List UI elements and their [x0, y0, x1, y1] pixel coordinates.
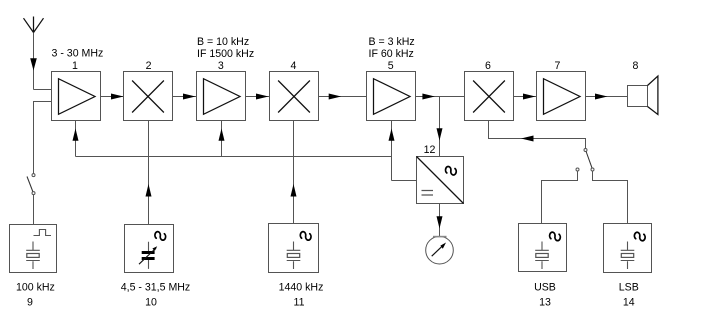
- wire mixer2 to amp3: [173, 96, 197, 98]
- arrow AGC into amp5: [389, 129, 395, 141]
- wire switch to oscillator 9: [33, 195, 35, 225]
- wire LSB contact to oscillator 14: [593, 171, 628, 224]
- wire oscillator11 to mixer4: [293, 121, 295, 224]
- wire mixer6 to amp7: [514, 96, 537, 98]
- wire USB contact to oscillator 13: [542, 171, 578, 224]
- block amplifier 5: [367, 72, 416, 121]
- block VFO 10: [125, 225, 174, 273]
- antenna: [24, 17, 44, 90]
- wire amp1 to mixer2: [101, 96, 124, 98]
- wire detector 12 to meter: [439, 204, 441, 237]
- wire amp1 lower input to calibrator switch: [34, 102, 52, 174]
- arrow into mixer4: [256, 94, 269, 100]
- svg-text:100 kHz: 100 kHz: [16, 282, 55, 294]
- svg-text:12: 12: [424, 144, 436, 156]
- arrow on wire to speaker: [595, 94, 608, 100]
- wire detector 12 output to AGC: [392, 180, 417, 182]
- svg-text:14: 14: [623, 297, 635, 309]
- block amplifier 1: [52, 72, 101, 121]
- svg-text:1440 kHz: 1440 kHz: [279, 282, 324, 294]
- wire amp3 to mixer4: [246, 96, 270, 98]
- arrow BFO into mixer6: [521, 136, 534, 142]
- svg-text:1: 1: [72, 60, 78, 72]
- block mixer 6: [465, 72, 514, 121]
- arrow on wire to mixer6: [422, 94, 435, 100]
- svg-text:3 - 30 MHz: 3 - 30 MHz: [52, 48, 104, 60]
- arrow into mixer2: [111, 94, 124, 100]
- AGC tap to amp3: [221, 121, 223, 157]
- speaker 8: [628, 76, 658, 115]
- switch S1 calibrator: [27, 174, 35, 195]
- block mixer 2: [124, 72, 173, 121]
- wire amp5 to mixer6: [416, 96, 465, 98]
- svg-text:6: 6: [485, 60, 491, 72]
- svg-text:IF 1500 kHz: IF 1500 kHz: [197, 48, 254, 60]
- AGC vertical from detector to amp5: [391, 121, 393, 181]
- wire junction down to detector 12: [439, 97, 441, 157]
- wire amp7 to speaker: [586, 96, 628, 98]
- block calibrator 9: [10, 225, 57, 273]
- arrow into amp3: [183, 94, 196, 100]
- svg-text:B = 3 kHz: B = 3 kHz: [369, 36, 415, 48]
- block crystal oscillator 14 LSB: [604, 224, 652, 273]
- AGC tap to amp1: [75, 121, 77, 157]
- arrow into amp7: [523, 94, 536, 100]
- block crystal oscillator 13 USB: [519, 224, 567, 272]
- svg-text:3: 3: [218, 60, 224, 72]
- svg-text:4: 4: [291, 60, 297, 72]
- svg-text:8: 8: [633, 60, 639, 72]
- svg-text:11: 11: [294, 297, 305, 309]
- block amplifier 3: [197, 72, 246, 121]
- switch S2 USB/LSB: [576, 149, 594, 172]
- block crystal oscillator 11: [269, 224, 319, 273]
- arrow on wire to amp5: [329, 94, 342, 100]
- arrow oscillator10 into mixer2: [146, 184, 152, 197]
- svg-text:IF 60 kHz: IF 60 kHz: [369, 48, 414, 60]
- svg-text:B = 10 kHz: B = 10 kHz: [197, 36, 249, 48]
- svg-text:4,5 - 31,5 MHz: 4,5 - 31,5 MHz: [121, 282, 190, 294]
- meter M1: [426, 236, 454, 264]
- AGC line horizontal: [76, 156, 392, 158]
- svg-text:2: 2: [146, 60, 152, 72]
- svg-text:7: 7: [555, 60, 561, 72]
- svg-text:13: 13: [539, 297, 551, 309]
- svg-text:9: 9: [27, 297, 33, 309]
- wire mixer6 bottom to BFO switch: [489, 121, 586, 149]
- svg-text:LSB: LSB: [619, 282, 639, 294]
- wire mixer4 to amp5: [319, 96, 367, 98]
- svg-text:5: 5: [388, 60, 394, 72]
- svg-text:10: 10: [145, 297, 157, 309]
- wire oscillator10 to mixer2: [148, 121, 150, 225]
- arrow oscillator11 into mixer4: [291, 184, 297, 197]
- arrow AGC into amp1: [73, 129, 79, 141]
- block mixer 4: [270, 72, 319, 121]
- arrow into meter: [437, 216, 443, 228]
- wire antenna to amp1: [34, 89, 52, 91]
- block detector 12: [417, 157, 464, 204]
- arrow into detector 12: [437, 128, 443, 140]
- svg-text:USB: USB: [534, 282, 556, 294]
- block amplifier 7: [537, 72, 586, 121]
- arrow AGC into amp3: [219, 129, 225, 141]
